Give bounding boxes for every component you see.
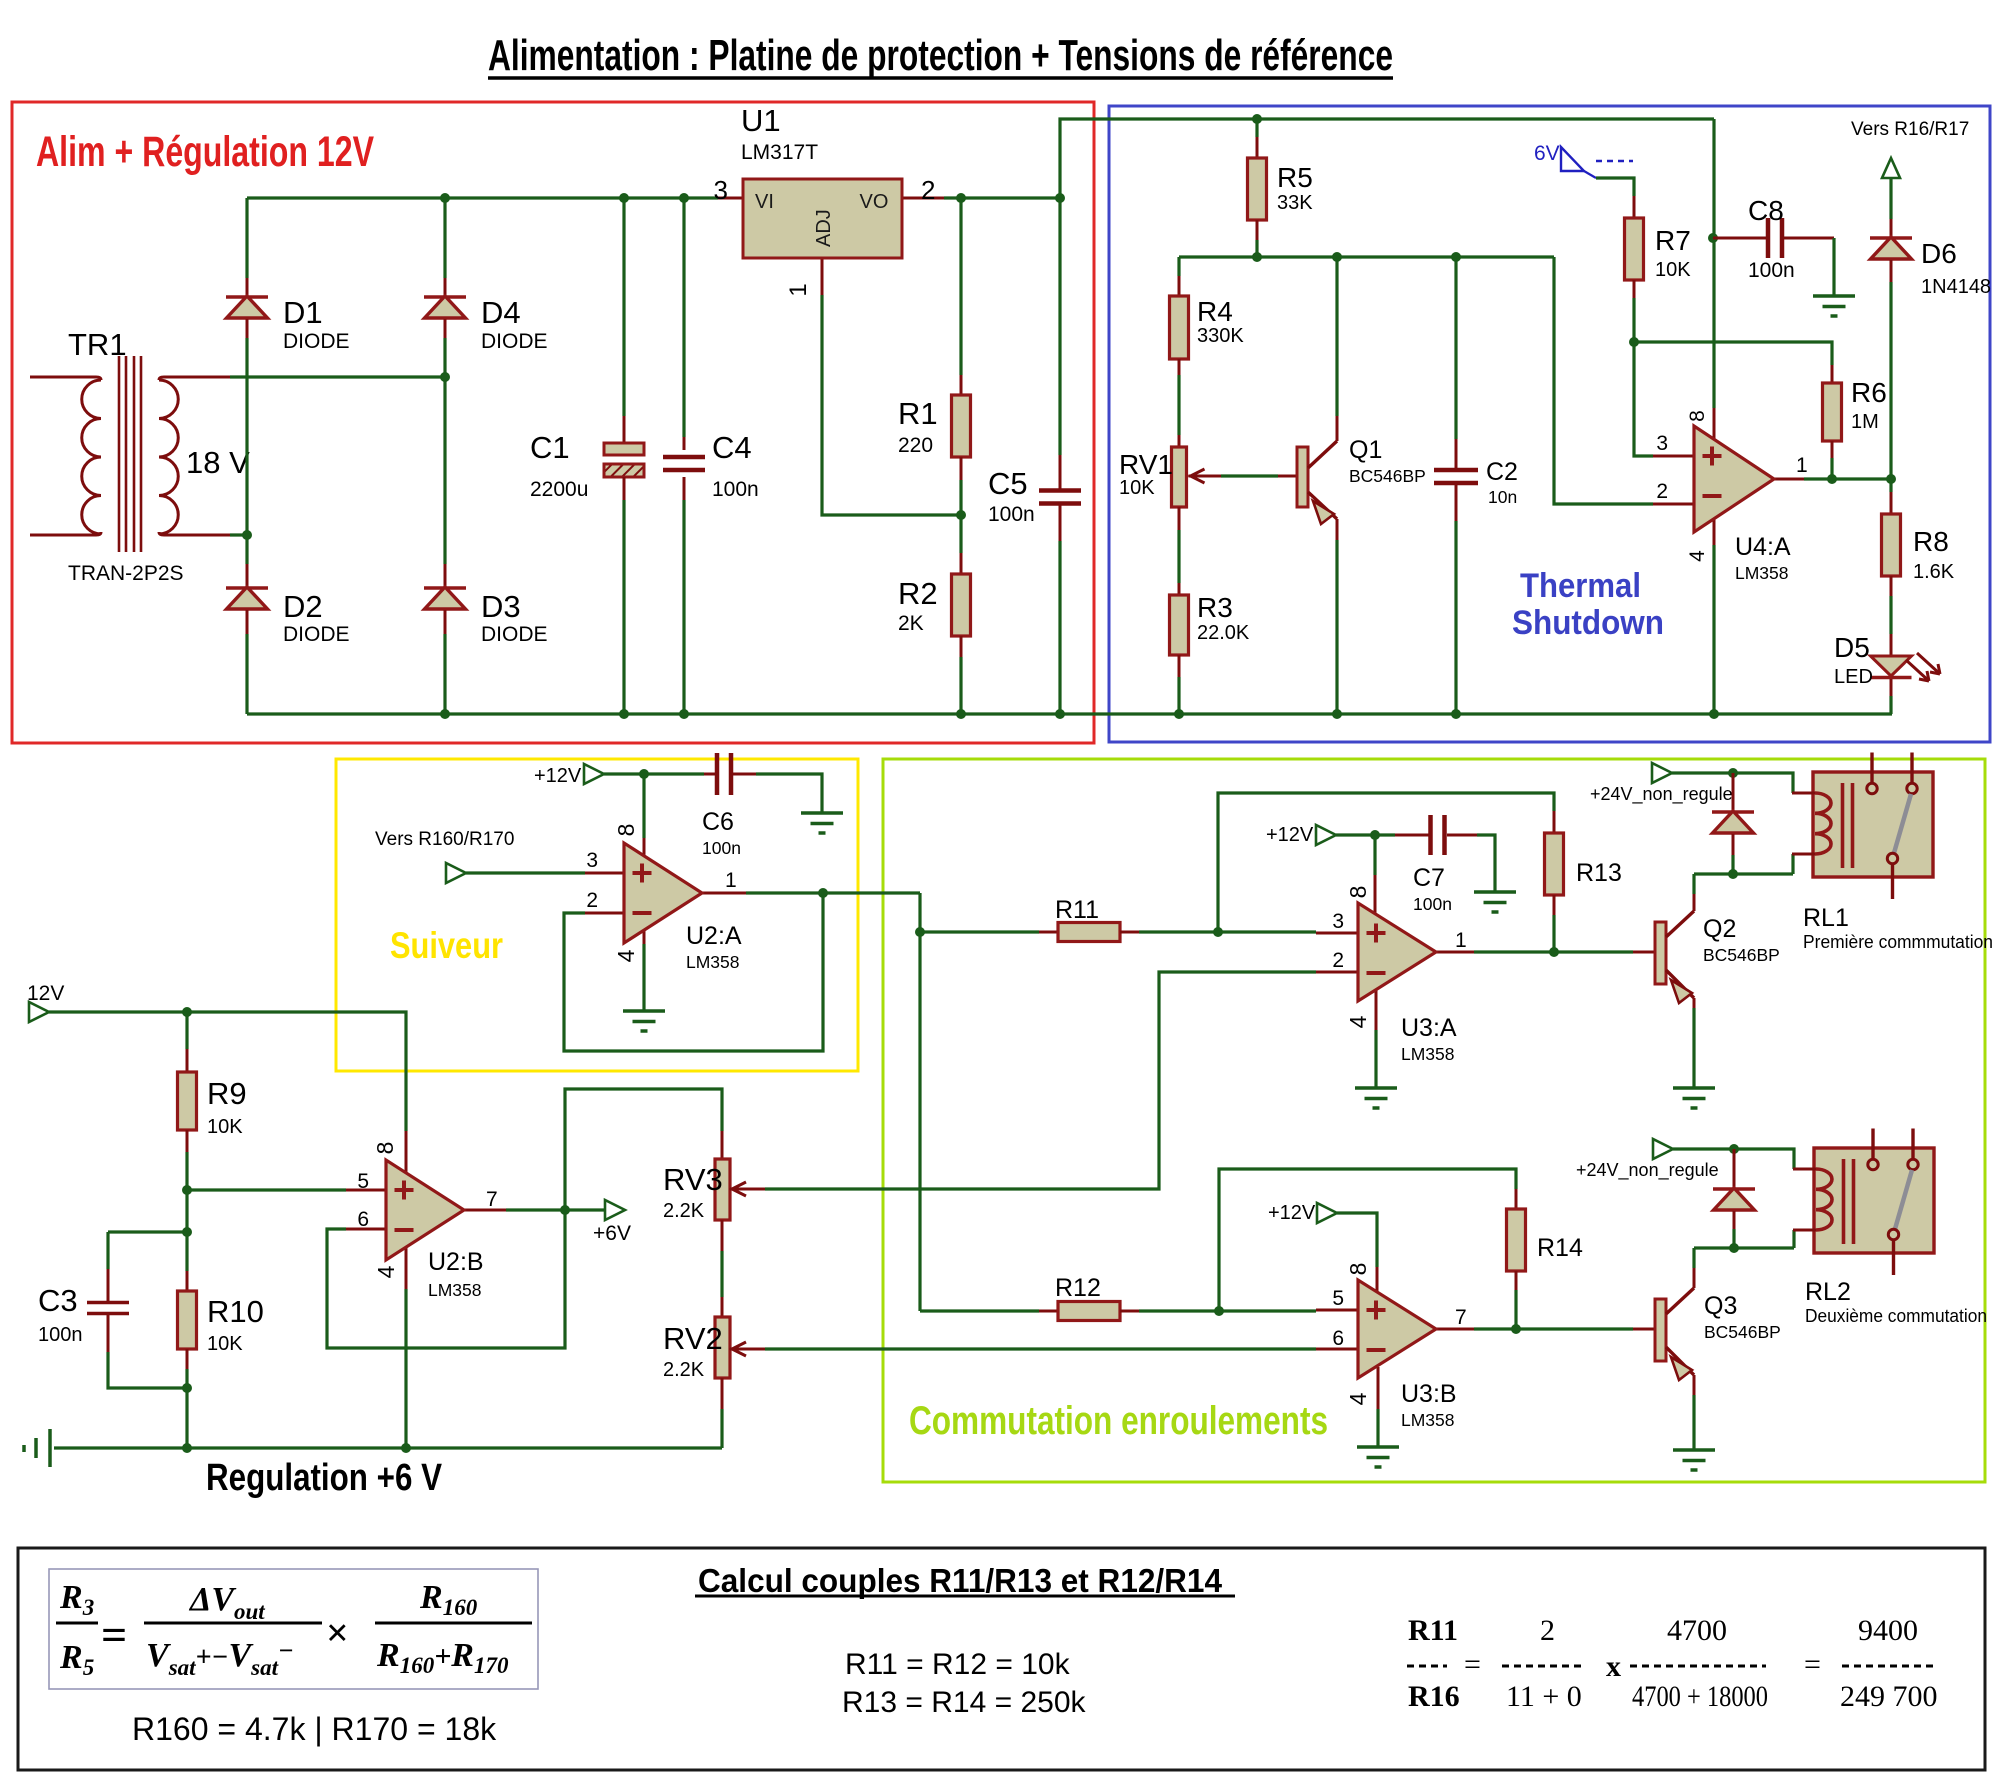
node: R9/R10/pin5 [182, 1185, 192, 1195]
svg-text:1M: 1M [1851, 411, 1879, 433]
svg-text:Regulation +6 V: Regulation +6 V [206, 1457, 443, 1499]
svg-text:1.6K: 1.6K [1913, 561, 1955, 583]
node: out/R6 [1827, 474, 1837, 484]
wire: C3 bottom branch [108, 1352, 187, 1388]
resistor R7 10K [1625, 196, 1692, 298]
wire: C1 bottom to rail [622, 500, 625, 714]
svg-text:C7: C7 [1413, 864, 1445, 892]
power terminal 12V [27, 982, 64, 1022]
node: top bus / R5 [1252, 114, 1262, 124]
wire: D1 cathode to bus [245, 198, 248, 278]
wire: +12V to U3:B pin8 [1337, 1213, 1377, 1267]
svg-text:R6: R6 [1851, 377, 1887, 408]
svg-text:33K: 33K [1277, 192, 1313, 214]
svg-text:DIODE: DIODE [481, 623, 548, 646]
diode D1 [226, 278, 350, 353]
svg-text:U3:B: U3:B [1401, 1380, 1457, 1408]
resistor R10 10K [178, 1271, 264, 1369]
wire: +12V to C6 [604, 772, 704, 775]
svg-text:Alim + Régulation 12V: Alim + Régulation 12V [36, 128, 374, 176]
node: rail/R5 [1252, 252, 1262, 262]
transistor Q1 BC546BP [1278, 416, 1426, 540]
wire: D3 cathode from secondary-top node [443, 377, 446, 564]
svg-text:4: 4 [373, 1265, 399, 1278]
svg-text:R5: R5 [1277, 162, 1313, 193]
wire: R5 bottom to base rail [1255, 240, 1258, 257]
svg-text:C5: C5 [988, 466, 1028, 501]
svg-text:2: 2 [1540, 1614, 1555, 1647]
capacitor C2 10n [1434, 439, 1518, 521]
svg-text:100n: 100n [1748, 259, 1795, 282]
relay RL2 [1793, 1129, 1987, 1327]
svg-text:R11 = R12 = 10k: R11 = R12 = 10k [845, 1648, 1071, 1681]
op-amp U2:A LM358 [585, 824, 746, 972]
section box: Thermal Shutdown (blue) [1109, 106, 1990, 742]
svg-text:2: 2 [921, 175, 935, 205]
wire: Q1 collector to rail [1335, 257, 1338, 416]
power terminal +12V (U3:B) [1268, 1202, 1337, 1224]
capacitor C7 100n [1395, 815, 1477, 914]
wire: D3 anode to ground rail [443, 634, 446, 714]
wire: R7 bottom to R6/pin3 node [1632, 298, 1635, 342]
svg-text:U3:A: U3:A [1401, 1014, 1457, 1042]
svg-text:4: 4 [1345, 1015, 1371, 1028]
node: +6V / RV loop [560, 1205, 570, 1215]
svg-text:C2: C2 [1486, 458, 1518, 486]
svg-text:+12V: +12V [534, 765, 582, 787]
wire: +6V node up-over to RV3 top [565, 1089, 722, 1210]
wire: R9 top [185, 1012, 188, 1049]
resistor R13 [1545, 811, 1622, 915]
svg-text:+12V: +12V [1266, 824, 1314, 846]
terminal: Vers R160/R170 input arrow [375, 829, 514, 883]
svg-text:9400: 9400 [1858, 1614, 1918, 1647]
svg-text:8: 8 [1686, 410, 1709, 422]
node: rail/U2:B pin4 [401, 1443, 411, 1453]
ground (U2:A) [623, 1009, 665, 1013]
diode D3 [424, 564, 548, 646]
wire: C5 bottom to rail [1058, 541, 1061, 714]
wire: U1 VO output bus to C5 column [944, 196, 1060, 199]
diode D2 [226, 564, 350, 646]
wire: U3:A output to Q2 base [1474, 950, 1633, 953]
svg-text:Calcul couples R11/R13 et R12/: Calcul couples R11/R13 et R12/R14 [698, 1562, 1223, 1599]
svg-text:U1: U1 [741, 103, 781, 138]
regulator U1 LM317T [714, 103, 944, 297]
wire: RV1 bottom to R3 top [1177, 530, 1180, 583]
wire: 12V rail to U2:B pin8 [49, 1012, 406, 1131]
node: secondary bottom / D1-D2 midpoint [242, 530, 252, 540]
svg-text:D1: D1 [283, 295, 323, 330]
svg-text:10n: 10n [1488, 487, 1517, 507]
svg-text:Q2: Q2 [1703, 915, 1736, 943]
wire: +24V to flyback/relay ch1 [1672, 773, 1793, 793]
diode D6 1N4148 [1870, 219, 1991, 298]
svg-text:R3: R3 [1197, 592, 1233, 623]
svg-text:RL1: RL1 [1803, 904, 1849, 932]
svg-text:2: 2 [586, 889, 598, 912]
node: rail/Q1 emitter [1332, 709, 1342, 719]
wire: 6V terminal to R7 top [1596, 178, 1634, 196]
wire: node to U4:A pin 3 [1634, 342, 1653, 456]
svg-text:LED: LED [1834, 666, 1873, 688]
svg-text:8: 8 [1345, 1263, 1371, 1276]
node: rail/R10 [182, 1443, 192, 1453]
capacitor C4 100n [663, 430, 759, 501]
wire: R11 to U3:A pin3 [1139, 930, 1316, 933]
wire: C7 to ground [1477, 835, 1495, 892]
svg-text:R13: R13 [1576, 859, 1622, 887]
node: output/feedback [818, 888, 828, 898]
node: rail/C4 [679, 709, 689, 719]
svg-text:2200u: 2200u [530, 478, 588, 501]
wire: riser from C5 node to blue box top bus y=119 [1060, 119, 1714, 198]
svg-text:LM358: LM358 [428, 1280, 482, 1300]
svg-text:D6: D6 [1921, 238, 1957, 269]
wire: R6 top branch [1634, 342, 1832, 365]
node: rail/Q1 collector [1332, 252, 1342, 262]
node: +24V/diode ch1 [1728, 768, 1738, 778]
node: +12V/pin8 U2:A [639, 769, 649, 779]
svg-text:D5: D5 [1834, 632, 1870, 663]
svg-text:2.2K: 2.2K [663, 1200, 705, 1222]
svg-text:DIODE: DIODE [283, 330, 350, 353]
svg-text:BC546BP: BC546BP [1704, 1322, 1781, 1342]
svg-text:3: 3 [714, 175, 728, 205]
wire: R10 bottom to ground rail [185, 1369, 188, 1448]
svg-text:D2: D2 [283, 589, 323, 624]
wire: U2:B output to +6V arrow [506, 1208, 605, 1211]
wire: R4 top from rail [1177, 257, 1180, 276]
ground (C7) [1474, 890, 1516, 894]
svg-text:2: 2 [1332, 949, 1344, 972]
svg-text:TR1: TR1 [68, 327, 127, 362]
svg-text:4: 4 [1686, 550, 1709, 562]
wire: R3 bottom to ground rail [1177, 677, 1180, 714]
svg-text:Vers R160/R170: Vers R160/R170 [375, 829, 514, 850]
svg-text:1: 1 [1455, 929, 1467, 952]
svg-text:2.2K: 2.2K [663, 1359, 705, 1381]
wire: R9 bottom through pin5 and C3 nodes to R10 [185, 1152, 188, 1271]
node: out/D6/R8 [1886, 474, 1896, 484]
capacitor C6 100n [702, 753, 756, 858]
svg-text:LM358: LM358 [686, 952, 740, 972]
wire: C2 bottom to ground rail [1454, 521, 1457, 714]
svg-text:U2:B: U2:B [428, 1248, 484, 1276]
node: rail/D3 [440, 709, 450, 719]
svg-text:5: 5 [357, 1170, 369, 1193]
svg-text:=: = [1804, 1648, 1821, 1681]
wire: D6 anode to output node [1889, 282, 1892, 492]
relay RL1 [1792, 753, 1993, 953]
wire: R12 input branch [920, 1309, 1039, 1312]
svg-text:11 + 0: 11 + 0 [1506, 1680, 1582, 1713]
wire: collector node to relay coil bottom ch2 [1694, 1230, 1794, 1248]
svg-text:7: 7 [1455, 1306, 1467, 1329]
potentiometer RV3 2.2K [663, 1131, 765, 1251]
svg-text:Deuxième commutation: Deuxième commutation [1805, 1306, 1987, 1326]
svg-text:+24V_non_regule: +24V_non_regule [1576, 1160, 1719, 1181]
op-amp U2:B LM358 [346, 1131, 506, 1300]
svg-text:U2:A: U2:A [686, 922, 742, 950]
resistor R12 (horizontal) [1039, 1274, 1139, 1321]
svg-text:+24V_non_regule: +24V_non_regule [1590, 784, 1733, 805]
wire: Q2 collector to relay node [1692, 874, 1695, 894]
node: collector/diode/relay ch2 [1729, 1243, 1739, 1253]
wire: R2 bottom to rail [959, 657, 962, 714]
wire: collector node to relay coil bottom ch1 [1694, 854, 1793, 874]
node: +12V/pin8/C7 [1370, 830, 1380, 840]
node: pin3/hysteresis [1213, 927, 1223, 937]
svg-text:220: 220 [898, 434, 933, 457]
node: rail/R3 [1174, 709, 1184, 719]
node: branch R11 [915, 927, 925, 937]
section box: Suiveur (yellow) [336, 759, 858, 1071]
svg-text:R11: R11 [1408, 1614, 1458, 1647]
svg-text:C1: C1 [530, 430, 570, 465]
svg-text:3: 3 [1656, 432, 1668, 455]
svg-text:R11: R11 [1055, 896, 1099, 924]
wire: input arrow to U2:A pin3 [466, 871, 585, 874]
capacitor C1 2200u (polarized) [530, 416, 644, 501]
svg-text:R12: R12 [1055, 1274, 1101, 1302]
potentiometer RV2 2.2K [663, 1297, 765, 1409]
svg-text:R16: R16 [1408, 1680, 1460, 1713]
svg-text:D3: D3 [481, 589, 521, 624]
wire: R6 bottom to output node [1830, 458, 1833, 478]
wire: U4:A pin4 to ground rail [1712, 545, 1715, 714]
ground (U3:B) [1357, 1445, 1399, 1449]
node: bus/C5 corner [1055, 193, 1065, 203]
wire: R1 bottom to node and R2 top [959, 480, 962, 553]
resistor R1 220 [898, 375, 971, 480]
svg-text:R7: R7 [1655, 225, 1691, 256]
svg-text:7: 7 [486, 1188, 498, 1211]
svg-text:Q1: Q1 [1349, 436, 1382, 464]
wire: D4 cathode to bus [443, 198, 446, 278]
wire: C2 top from rail [1454, 257, 1457, 439]
wire: Q2 emitter to ground [1692, 1008, 1695, 1088]
wire: Q3 emitter to ground [1692, 1395, 1695, 1450]
label: Calcul couples R11/R13 et R12/R14 [695, 1562, 1235, 1599]
wire: arrow to D6 cathode [1889, 178, 1892, 219]
svg-text:U4:A: U4:A [1735, 533, 1791, 561]
svg-text:100n: 100n [38, 1324, 83, 1346]
wire: R5 top pin from bus [1255, 119, 1258, 137]
potentiometer RV1 10K [1119, 435, 1221, 530]
wire: R11 input branch [920, 930, 1039, 933]
ground (Q3) [1673, 1448, 1715, 1452]
svg-text:10K: 10K [1655, 259, 1691, 281]
wire: +12V to C7 and pin8 [1336, 833, 1395, 836]
node: out/R14 [1511, 1324, 1521, 1334]
svg-text:4: 4 [1345, 1392, 1371, 1405]
ground (C6) [801, 811, 843, 815]
node: riser/C8 [1708, 233, 1718, 243]
svg-text:10K: 10K [1119, 477, 1155, 499]
ground rail y=1467 with left earth terminal [54, 1446, 722, 1449]
wire: U3:B pin4 to ground [1376, 1409, 1379, 1447]
svg-text:1N4148: 1N4148 [1921, 276, 1991, 298]
svg-text:8: 8 [613, 824, 639, 837]
wire: C1 top to bus [622, 198, 625, 416]
svg-text:R13 = R14 = 250k: R13 = R14 = 250k [842, 1686, 1087, 1719]
svg-text:=: = [101, 1609, 127, 1660]
node: out/R13 [1549, 947, 1559, 957]
svg-text:LM358: LM358 [1401, 1044, 1455, 1064]
svg-text:C6: C6 [702, 808, 734, 836]
wire: Q1 emitter to ground rail [1335, 540, 1338, 714]
wire: R4 bottom to RV1 top [1177, 375, 1180, 435]
resistor R14 [1507, 1189, 1583, 1290]
svg-text:Suiveur: Suiveur [390, 925, 503, 966]
wire: ground rail y=714 across red and blue boxes [247, 712, 1892, 715]
flyback diode (RL2) [1713, 1149, 1755, 1229]
svg-text:RV3: RV3 [663, 1162, 723, 1197]
wire: U3:A pin4 to ground [1374, 1030, 1377, 1088]
resistor R8 1.6K [1882, 492, 1955, 596]
svg-text:1: 1 [1796, 454, 1808, 477]
svg-text:Commutation enroulements: Commutation enroulements [909, 1399, 1328, 1443]
node: +24V/diode ch2 [1729, 1144, 1739, 1154]
node: collector/diode/relay ch1 [1728, 869, 1738, 879]
wire: ch2 hysteresis loop R14 [1219, 1169, 1516, 1311]
resistor R11 (horizontal) [1039, 896, 1139, 942]
op-amp U4:A LM358 [1653, 408, 1808, 583]
svg-text:ADJ: ADJ [813, 209, 835, 247]
wire: RV3 wiper to U3:A pin2 (threshold 1) [765, 972, 1316, 1189]
resistor R9 10K [178, 1049, 247, 1152]
node: 12V/R9 [182, 1007, 192, 1017]
power terminal 6V (blue) [1534, 142, 1633, 178]
svg-text:x: x [1606, 1650, 1621, 1683]
node: bus/C4 [679, 193, 689, 203]
wire: RV2 bottom to ground rail [720, 1409, 723, 1448]
svg-text:6V: 6V [1534, 142, 1560, 165]
svg-text:BC546BP: BC546BP [1703, 945, 1780, 965]
capacitor C5 100n [988, 455, 1081, 541]
wire: TR1 secondary bottom to D1-D2 midpoint [230, 533, 247, 536]
transformer TR1 TRAN-2P2S [30, 327, 250, 585]
flyback diode (RL1) [1712, 773, 1754, 855]
section box: Commutation enroulements (yellow-green) [883, 759, 1985, 1482]
wire: U2:A output down to comparator inputs [918, 893, 921, 1311]
svg-text:+6V: +6V [593, 1222, 631, 1245]
wire: diode anode to collector node ch1 [1731, 855, 1734, 874]
svg-text:6: 6 [357, 1208, 369, 1231]
section box: Alim + Régulation 12V (red) [12, 102, 1094, 743]
terminal: Vers R16/R17 (arrow up) [1851, 119, 1969, 178]
formula image box (R3/R5 equation) [49, 1569, 538, 1689]
svg-text:100n: 100n [1413, 894, 1452, 914]
svg-text:R4: R4 [1197, 296, 1233, 327]
svg-text:3: 3 [586, 849, 598, 872]
resistor R3 22.0K [1170, 583, 1250, 677]
svg-text:Vers R16/R17: Vers R16/R17 [1851, 119, 1969, 140]
transistor Q3 BC546BP [1633, 1268, 1781, 1395]
wire: U2:B pin4 to rail [404, 1289, 407, 1448]
svg-text:R14: R14 [1537, 1234, 1583, 1262]
svg-text:2K: 2K [898, 612, 924, 635]
svg-text:BC546BP: BC546BP [1349, 466, 1426, 486]
wire: LED cathode to ground rail [1889, 696, 1892, 714]
node: pin5/hysteresis [1214, 1306, 1224, 1316]
wire: TR1 secondary top to D3/D4 column [230, 375, 445, 378]
svg-text:12V: 12V [27, 982, 64, 1005]
wire: RV1 wiper to Q1 base [1221, 474, 1278, 477]
svg-text:RV1: RV1 [1119, 449, 1173, 480]
ground terminal (left) [24, 1429, 50, 1467]
node: bus/C1 [619, 193, 629, 203]
node: bus/D4 [440, 193, 450, 203]
bottom panel box [18, 1548, 1985, 1770]
svg-text:=: = [1464, 1648, 1481, 1681]
svg-text:100n: 100n [988, 503, 1035, 526]
svg-text:R2: R2 [898, 576, 938, 611]
wire: C6 right to ground [756, 774, 822, 813]
svg-text:VI: VI [755, 191, 774, 213]
wire: U3:B output to Q3 base [1474, 1327, 1633, 1330]
svg-text:249 700: 249 700 [1840, 1680, 1938, 1713]
wire: ADJ pin down and right to R1/R2 node [822, 295, 961, 515]
wire: Q3 collector to relay node [1692, 1248, 1695, 1268]
wire: C5 top from bus node [1058, 198, 1061, 455]
svg-text:Shutdown: Shutdown [1512, 604, 1664, 642]
wire: +24V to flyback/relay ch2 [1673, 1149, 1794, 1169]
wire: U4:A output to D6/R8 node [1804, 477, 1891, 480]
capacitor C8 100n [1713, 195, 1834, 282]
resistor R5 33K [1248, 137, 1314, 240]
node: rail/C1 [619, 709, 629, 719]
wire: U2:B pin6 feedback loop [327, 1210, 565, 1348]
node: rail/C2 [1451, 252, 1461, 262]
svg-text:8: 8 [372, 1142, 398, 1155]
wire: U4:A supply riser pin 8 [1712, 119, 1715, 408]
svg-text:C3: C3 [38, 1283, 78, 1318]
wire: top +V bus y=198 from bridge to U1 VI [247, 196, 718, 199]
svg-text:8: 8 [1345, 886, 1371, 899]
svg-text:6: 6 [1332, 1327, 1344, 1350]
ground (C8) [1813, 294, 1855, 298]
svg-text:5: 5 [1332, 1287, 1344, 1310]
wire: R8 bottom to LED [1889, 596, 1892, 634]
svg-text:2: 2 [1656, 480, 1668, 503]
svg-text:4: 4 [613, 949, 639, 962]
svg-text:DIODE: DIODE [481, 330, 548, 353]
title: Alimentation : Platine de protection + Tensions de référence [488, 31, 1393, 80]
power terminal +24V_non_regule (ch2) [1576, 1139, 1719, 1181]
node: rail/C2 [1451, 709, 1461, 719]
op-amp U3:B LM358 [1316, 1263, 1474, 1430]
wire: base rail y=257 (R4 to U4 pin2 leg) [1179, 255, 1554, 258]
ground (U3:A) [1355, 1086, 1397, 1090]
wire: U2:A pin8 from +12V node [642, 774, 645, 838]
wire: U4:A pin2 leg from base rail [1554, 257, 1653, 504]
svg-text:R10: R10 [207, 1294, 264, 1329]
svg-text:Thermal: Thermal [1520, 567, 1641, 605]
wire: U2:A feedback pin2 loop [564, 893, 823, 1051]
wire: D4 anode to secondary-top node [443, 338, 446, 377]
wire: diode anode to collector node ch2 [1732, 1229, 1735, 1248]
svg-text:Alimentation : Platine de prot: Alimentation : Platine de protection + T… [488, 31, 1393, 80]
svg-text:LM358: LM358 [1735, 563, 1789, 583]
power terminal +24V_non_regule (ch1) [1590, 763, 1733, 805]
svg-text:18 V: 18 V [186, 445, 250, 480]
capacitor C3 100n [38, 1232, 129, 1352]
svg-text:LM358: LM358 [1401, 1410, 1455, 1430]
svg-text:10K: 10K [207, 1116, 243, 1138]
node: VO/R1 [956, 193, 966, 203]
